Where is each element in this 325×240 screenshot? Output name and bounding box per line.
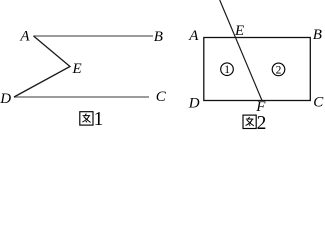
svg-text:A: A (19, 28, 30, 44)
svg-text:E: E (234, 23, 244, 39)
svg-text:B: B (154, 29, 163, 45)
svg-text:1: 1 (224, 64, 230, 76)
svg-text:D: D (188, 96, 200, 112)
svg-text:2: 2 (257, 113, 267, 130)
svg-text:A: A (188, 28, 199, 44)
svg-text:D: D (0, 91, 11, 107)
svg-text:C: C (313, 95, 324, 111)
svg-text:C: C (156, 89, 167, 105)
svg-text:B: B (313, 27, 322, 43)
svg-text:2: 2 (276, 64, 282, 76)
svg-text:1: 1 (94, 109, 104, 130)
svg-text:E: E (72, 61, 82, 77)
